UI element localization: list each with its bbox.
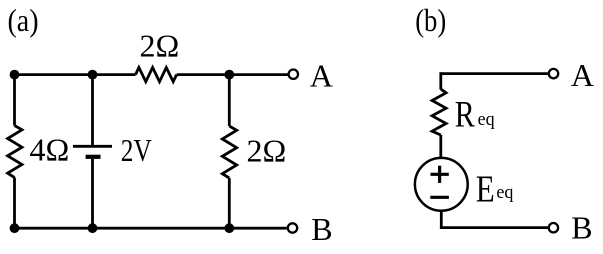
wire middle branch upper <box>91 75 94 146</box>
wire middle branch lower <box>91 159 94 228</box>
svg-text:A: A <box>310 57 333 93</box>
terminal B (b) open circle <box>549 223 558 232</box>
junction dot bottom-right <box>224 223 234 233</box>
svg-text:2Ω: 2Ω <box>140 28 180 64</box>
plus sign <box>431 173 449 176</box>
wire top rail right segment <box>177 73 288 76</box>
terminal A (b) open circle <box>549 69 558 78</box>
wire branch bottom (b) <box>440 211 443 228</box>
svg-text:(a): (a) <box>8 2 39 38</box>
wire bottom rail <box>15 227 287 230</box>
junction dot top-left <box>10 70 20 80</box>
wire right branch lower <box>228 178 231 228</box>
svg-text:(b): (b) <box>415 2 446 38</box>
junction dot bottom-left <box>10 223 20 233</box>
resistor R top 2ohm <box>136 68 177 82</box>
resistor Req <box>432 89 446 135</box>
svg-text:2Ω: 2Ω <box>247 133 287 169</box>
svg-text:eq: eq <box>478 109 495 130</box>
svg-text:R: R <box>455 94 475 135</box>
svg-text:eq: eq <box>496 182 513 203</box>
wire between Req and Eeq <box>439 135 442 158</box>
svg-text:E: E <box>476 168 495 210</box>
wire bottom rail (b) <box>440 226 548 229</box>
wire branch top (b) <box>439 72 442 89</box>
svg-text:B: B <box>571 210 592 246</box>
minus sign <box>430 196 449 199</box>
svg-text:2V: 2V <box>121 132 152 168</box>
wire left rail lower <box>13 178 16 229</box>
wire top rail left segment <box>15 73 136 76</box>
junction dot top-middle <box>88 70 98 80</box>
resistor 4ohm <box>8 126 22 178</box>
resistor right 2ohm <box>222 126 236 178</box>
junction dot bottom-middle <box>88 223 98 233</box>
terminal A (a) open circle <box>289 70 298 79</box>
battery 2V negative plate <box>86 155 101 159</box>
wire right branch upper <box>228 75 231 126</box>
svg-text:A: A <box>571 57 594 93</box>
junction dot top-right <box>224 70 234 80</box>
svg-text:B: B <box>311 211 332 247</box>
source Eeq circle <box>415 158 468 211</box>
wire left rail upper <box>13 75 16 126</box>
wire top rail (b) <box>441 72 548 75</box>
terminal B (a) open circle <box>288 223 297 232</box>
svg-text:4Ω: 4Ω <box>30 132 70 168</box>
battery 2V positive plate <box>73 145 112 148</box>
